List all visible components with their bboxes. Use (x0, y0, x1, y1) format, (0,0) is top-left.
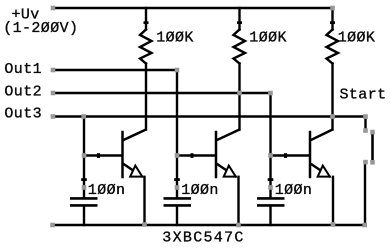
transistor Q3 body (309, 132, 312, 177)
wire Out3 junction drop to Q1 base node (83, 117, 85, 156)
wire C2 top lead (176, 156, 178, 198)
pin tick capacitor C3 (268, 178, 274, 181)
node handle Out3 stage1 junction (81, 114, 86, 119)
pin tick resistor R1 (144, 21, 149, 24)
wire Q1 base horizontal (84, 154, 121, 156)
svg-text:1ØØn: 1ØØn (181, 182, 219, 199)
node handle Q3 emitter on rail (331, 222, 336, 227)
node handle Out2 right corner (268, 91, 273, 96)
node handle Q2 base junction (175, 153, 180, 158)
transistor Q2 body (215, 132, 218, 177)
svg-text:(1-2ØØV): (1-2ØØV) (3, 20, 78, 37)
wire R3 top lead from rail (331, 8, 333, 30)
node handle Out1 right corner (175, 68, 180, 73)
pin tick Q2 base (191, 153, 194, 158)
resistor R1 (140, 30, 152, 64)
node handle R2 Out2 junction (237, 91, 242, 96)
wire R3 bottom lead to Out3 (331, 64, 333, 117)
node handle Q1 emitter on rail (142, 222, 147, 227)
wire switch S1 top stub from Out3 (364, 117, 366, 131)
svg-text:3XBC547C: 3XBC547C (162, 230, 244, 247)
node handle C1 top pin (82, 185, 87, 190)
node handle top-left supply end (51, 6, 56, 11)
capacitor C3 plates (257, 197, 285, 200)
transistor Q1 body (121, 132, 124, 177)
node handle Q1 base junction (82, 153, 87, 158)
wire Out1 horizontal (54, 69, 178, 71)
wire Out2 horizontal (54, 92, 271, 94)
svg-text:1ØØn: 1ØØn (88, 182, 126, 199)
wire Q2 collector vertical (Out2 down to collector corner) (238, 93, 240, 130)
wire R2 bottom lead to Out2 (238, 64, 240, 94)
pin tick resistor R3 (330, 21, 335, 24)
node handle Out3 right end (363, 114, 368, 119)
wire Q1 emitter vertical to ground rail (143, 177, 145, 225)
node handle C2 top pin (175, 185, 180, 190)
wire top supply rail (54, 7, 333, 9)
wire Q2 emitter vertical to ground rail (237, 177, 239, 225)
resistor R2 (234, 30, 246, 64)
svg-text:Out1: Out1 (4, 61, 42, 78)
wire Q1 collector vertical (Out1 down to collector corner) (145, 70, 147, 130)
wire Q3 emitter vertical to ground rail (332, 177, 334, 225)
wire R1 top lead from rail (145, 8, 147, 30)
svg-text:Start: Start (340, 86, 387, 103)
wire C1 bottom lead to ground rail (83, 206, 85, 225)
wire C3 top lead (269, 156, 271, 198)
node handle C3 top pin (268, 185, 273, 190)
svg-text:1ØØK: 1ØØK (249, 29, 287, 46)
pin tick capacitor C2 (174, 178, 180, 181)
pin tick Q1 base (97, 153, 100, 158)
node handle Q2 emitter on rail (236, 223, 241, 228)
wire Q3 base horizontal (271, 154, 309, 156)
svg-text:1ØØK: 1ØØK (156, 29, 194, 46)
transistor Q2 emitter arrowhead (224, 166, 236, 177)
capacitor C2 plates (164, 197, 192, 200)
svg-text:Out2: Out2 (4, 83, 42, 100)
wire C1 top lead (83, 156, 85, 198)
node handle ground rail right corner (362, 223, 367, 228)
node handle ground rail left end (50, 223, 55, 228)
wire R2 top lead from rail (238, 8, 240, 30)
wire Out2 corner drop to Q3 base node (269, 93, 271, 156)
transistor Q3 emitter arrowhead (318, 166, 330, 177)
node handle top rail right corner (330, 6, 335, 11)
transistor Q1 emitter arrowhead (130, 166, 142, 177)
wire Q2 base horizontal (177, 154, 215, 156)
pin tick Q3 base (284, 153, 287, 158)
wire switch S1 bottom stub to ground rail corner (364, 162, 366, 225)
node handle Out1 left end (51, 68, 56, 73)
svg-text:1ØØK: 1ØØK (338, 29, 376, 46)
wire R1 bottom lead to Out1 (145, 64, 147, 71)
svg-text:Out3: Out3 (4, 106, 42, 123)
svg-text:1ØØn: 1ØØn (275, 182, 313, 199)
node handle Out3 left end (51, 114, 56, 119)
wire Out3 horizontal (54, 115, 366, 117)
node handle switch lever bottom (370, 160, 375, 165)
node handle Q3 base junction (268, 153, 273, 158)
node handle switch bottom terminal (363, 160, 368, 165)
wire Out1 corner drop to Q2 base node (176, 70, 178, 156)
wire Q3 collector vertical (Out3 down to collector corner) (331, 117, 333, 130)
pin tick resistor R2 (237, 21, 242, 24)
wire bottom ground rail (53, 224, 365, 226)
capacitor C1 plates (70, 197, 98, 200)
node handle Out2 left end (51, 91, 56, 96)
pin tick capacitor C1 (81, 178, 87, 181)
node handle Out3 R3 junction (330, 114, 335, 119)
resistor R3 (327, 30, 339, 64)
node handle switch top terminal (363, 128, 368, 133)
node handle switch lever top (370, 130, 375, 135)
wire C2 bottom lead to ground rail (176, 206, 178, 225)
switch S1 lever (371, 133, 374, 161)
wire C3 bottom lead to ground rail (269, 206, 271, 225)
